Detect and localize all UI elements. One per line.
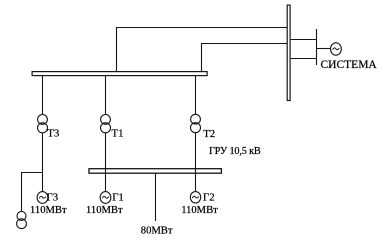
wire stub upper to system xyxy=(291,39,317,41)
svg-text:80МВт: 80МВт xyxy=(141,225,173,236)
transformer T3 xyxy=(38,115,48,125)
wire riser 1 from bus A up xyxy=(117,28,288,72)
svg-text:Г1: Г1 xyxy=(112,191,124,203)
wire T3 to G3 xyxy=(42,133,44,192)
svg-text:Т2: Т2 xyxy=(203,128,215,140)
wire T2 to GRU bus xyxy=(195,133,197,169)
wire vertical join at system side xyxy=(316,29,318,65)
transformer T1 xyxy=(101,115,111,125)
wire riser 2 from bus A up xyxy=(202,44,288,72)
bus system (right vertical busbar) xyxy=(287,5,290,100)
wire T1 drop from bus A xyxy=(105,76,107,115)
transformer T2 xyxy=(191,114,201,124)
wire branch to aux transformer xyxy=(22,173,43,212)
svg-text:ГРУ 10,5 кВ: ГРУ 10,5 кВ xyxy=(209,146,261,157)
generator G2 xyxy=(190,192,200,203)
system source circle xyxy=(331,43,342,55)
wire T3 drop from bus A xyxy=(42,76,44,115)
generator G1 xyxy=(100,192,111,204)
svg-text:СИСТЕМА: СИСТЕМА xyxy=(321,59,378,71)
aux transformer xyxy=(17,211,26,220)
wire feed to system source xyxy=(317,48,331,50)
svg-text:Г2: Г2 xyxy=(203,191,215,203)
generator G3 xyxy=(37,192,48,204)
bus GRU 10.5 kV xyxy=(89,169,221,174)
svg-text:110МВт: 110МВт xyxy=(181,205,218,216)
wire GRU to G2 xyxy=(195,169,197,192)
svg-text:Т3: Т3 xyxy=(47,127,59,139)
wire T1 to GRU bus xyxy=(105,133,107,169)
bus A (110 kV main bus) xyxy=(32,72,207,76)
svg-text:Т1: Т1 xyxy=(112,127,124,139)
wire stub lower to system xyxy=(291,58,317,60)
svg-text:Г3: Г3 xyxy=(47,191,59,203)
wire load 80MW xyxy=(155,173,157,221)
wire T2 drop from bus A xyxy=(195,76,197,115)
svg-text:110МВт: 110МВт xyxy=(86,205,123,216)
svg-text:110МВт: 110МВт xyxy=(30,205,67,216)
wire GRU to G1 xyxy=(105,169,107,192)
